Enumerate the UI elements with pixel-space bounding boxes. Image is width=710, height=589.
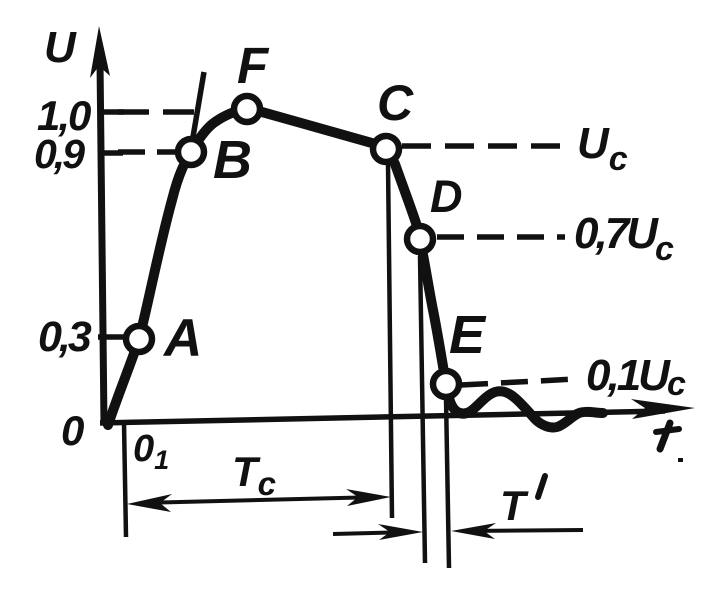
point F [234, 96, 260, 122]
svg-text:0,9: 0,9 [34, 131, 85, 177]
point B [178, 139, 204, 165]
dashed level 0,1Uc [461, 379, 576, 385]
main pulse curve [108, 109, 603, 428]
slash mark at 1,0 crossing [193, 72, 204, 137]
T' left arrowhead [378, 524, 423, 540]
point D [407, 226, 433, 252]
vertical guide from D [420, 256, 425, 563]
Tc left arrowhead [127, 494, 172, 512]
prime mark of T' [538, 476, 545, 497]
svg-text:E: E [449, 305, 487, 365]
vertical guide from C [388, 163, 392, 518]
dashed level 1,0 [118, 109, 197, 115]
svg-text:0,3: 0,3 [38, 313, 92, 361]
x-axis arrowhead [631, 399, 695, 419]
vertical guide at 01 [124, 423, 126, 537]
point E [433, 371, 459, 397]
svg-text:0: 0 [61, 407, 84, 454]
svg-text:B: B [213, 130, 252, 190]
T' right arrowhead [451, 523, 496, 539]
dashed level 0,9 [118, 149, 177, 155]
tick 0,3 [98, 334, 128, 340]
vertical guide from E [446, 398, 449, 568]
Tc right arrowhead [346, 489, 391, 506]
y-axis U [100, 62, 104, 424]
svg-text:U: U [44, 23, 77, 72]
axis label t [656, 423, 679, 449]
dashed level Uc [402, 143, 565, 149]
svg-text:D: D [430, 171, 463, 222]
svg-text:F: F [237, 37, 270, 94]
Tc dimension line [140, 497, 380, 503]
tick 1,0 [98, 109, 124, 115]
dashed level 0,7Uc [437, 234, 565, 240]
point C [373, 136, 399, 162]
svg-text:T: T [500, 482, 529, 529]
svg-text:A: A [162, 309, 202, 368]
T' right dimension line [465, 530, 583, 531]
y-axis arrowhead [90, 26, 110, 78]
svg-text:C: C [377, 75, 414, 131]
T' left dimension line [333, 532, 410, 534]
point A [126, 326, 152, 352]
tick 0,9 [98, 150, 123, 156]
x-axis t [100, 411, 665, 423]
small speck under t [678, 458, 683, 462]
